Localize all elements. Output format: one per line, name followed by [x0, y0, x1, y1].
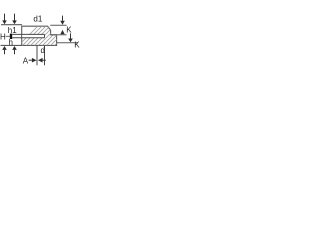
- svg-text:A: A: [23, 57, 29, 66]
- hatching of body section: [14, 24, 100, 50]
- wire: bore/pipe top line: [12, 33, 44, 35]
- body of fitting (outline): [22, 26, 57, 45]
- node: h1 down arrow left: [2, 14, 7, 25]
- wire: extension line left (A/d): [36, 46, 38, 66]
- svg-text:h1: h1: [8, 26, 17, 35]
- wire: K bottom reference line: [57, 42, 78, 44]
- node: A right arrow: [29, 58, 37, 63]
- node: K2 down arrow: [68, 33, 73, 42]
- wire: extension line right (A/d): [44, 46, 46, 66]
- wire: bottom-left reference line: [1, 44, 22, 46]
- wire: bore end vertical: [44, 34, 46, 37]
- wire: K middle line: [51, 34, 67, 36]
- wire: K top reference line: [50, 24, 66, 26]
- node: K1 down arrow: [60, 16, 65, 25]
- svg-text:d: d: [41, 46, 45, 55]
- node: h1 down arrow right: [12, 14, 17, 25]
- svg-text:d1: d1: [33, 15, 42, 24]
- wire: left top reference line: [1, 24, 22, 26]
- node: h up arrow right: [12, 46, 17, 54]
- svg-text:H: H: [0, 32, 6, 41]
- node: H solid bar marker: [10, 34, 12, 39]
- svg-text:K: K: [74, 41, 80, 50]
- node: h up arrow left: [2, 46, 7, 54]
- node: K1 up arrow: [60, 30, 64, 34]
- wire: H leader line: [6, 35, 10, 37]
- wire: bore/pipe bottom line: [12, 37, 44, 39]
- node: A left arrow: [38, 58, 46, 63]
- bore (white channel): [22, 35, 44, 38]
- svg-text:K: K: [66, 26, 72, 35]
